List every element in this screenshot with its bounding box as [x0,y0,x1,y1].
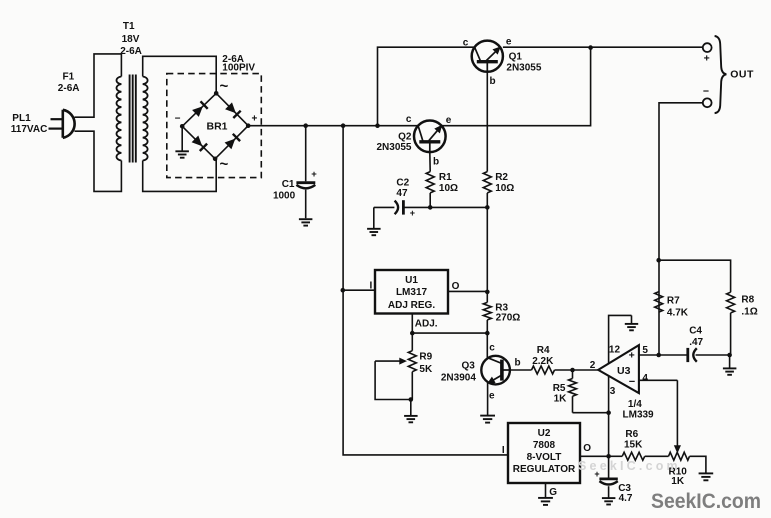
svg-text:F1: F1 [63,71,75,82]
label BR1 [206,120,227,132]
bridge module dashed outline [167,74,261,178]
diode BR1 top-right [225,102,241,118]
resistor R9 5K pot [408,351,433,400]
svg-text:270Ω: 270Ω [496,312,521,323]
wire Q3 base to R4 [510,369,532,371]
transformer T1 core [130,75,136,163]
svg-text:Q3: Q3 [462,360,476,371]
svg-text:ADJ.: ADJ. [415,319,438,330]
svg-text:−: − [629,376,635,388]
svg-text:100PIV: 100PIV [222,63,255,74]
svg-text:U1: U1 [405,275,418,286]
node U1 bus tap [341,123,346,128]
svg-text:+: + [410,208,415,218]
connector PL1 117VAC plug [11,110,75,138]
svg-text:10Ω: 10Ω [439,183,458,194]
svg-text:1K: 1K [671,476,685,487]
svg-text:2N3055: 2N3055 [506,62,541,73]
ground C3 [602,498,616,504]
svg-text:c: c [406,114,412,125]
wire ADJ pin [412,314,438,334]
wire Q1 emitter to OUT+ [503,46,703,48]
svg-text:8-VOLT: 8-VOLT [527,452,562,463]
label U1 input pin I [370,281,373,292]
ground Q3 [480,416,495,423]
wire Q1 collector riser [378,47,475,126]
svg-text:LM339: LM339 [623,410,655,421]
wire R5 bottom to pin3 node [573,412,609,414]
svg-text:10Ω: 10Ω [495,183,514,194]
node U1 input [341,288,346,293]
capacitor C2 47 [374,177,430,218]
svg-text:.1Ω: .1Ω [741,307,757,318]
wire U1 output [448,290,487,292]
resistor R3 270ohm [483,292,520,333]
capacitor C3 4.7 [594,456,633,504]
terminal OUT+ [703,43,712,64]
svg-text:18V: 18V [122,34,140,45]
svg-text:R4: R4 [537,345,550,356]
wire U3 pin4 to R10 wiper [639,379,678,381]
node R1 bottom [428,205,433,210]
regulator U1 LM317 box [375,270,448,314]
svg-text:4.7K: 4.7K [667,307,689,318]
resistor R6 15K [622,429,645,460]
svg-text:2.2K: 2.2K [532,356,554,367]
svg-text:LM317: LM317 [396,287,428,298]
wire U1 input [343,289,375,291]
svg-text:T1: T1 [123,21,135,32]
wire R4 to node2 [555,369,599,371]
label U2 input I [502,445,505,456]
svg-text:C4: C4 [689,325,702,336]
wiper R9 [375,358,411,399]
node bridge bottom [213,156,229,173]
ground U3 pin12 [625,315,638,330]
diode BR1 bottom-left [192,136,208,152]
wire U3 pin12 VCC to ground [609,315,632,363]
transformer T1 primary winding [116,77,121,161]
node pin3 junction [606,410,611,415]
wire U2 output [580,455,609,457]
svg-text:2: 2 [590,360,596,371]
svg-text:BR1: BR1 [206,120,227,132]
svg-text:b: b [515,358,521,369]
ground bridge left node [175,126,189,157]
resistor R4 2.2K [532,345,555,374]
svg-text:1K: 1K [554,394,568,405]
svg-text:R7: R7 [667,296,680,307]
node R7 top junction [656,258,661,263]
ground R9 [404,400,418,423]
node U1 output R3 top [485,290,490,295]
node bridge right [246,114,258,128]
bridge rectifier BR1 diamond [182,93,248,159]
svg-text:SeekIC.com: SeekIC.com [578,459,681,473]
svg-text:2N3055: 2N3055 [376,142,411,153]
resistor R7 4.7K [655,292,689,319]
svg-text:4: 4 [642,373,648,384]
svg-text:e: e [489,390,495,401]
capacitor C4 .47 [688,325,730,362]
svg-text:R9: R9 [419,352,432,363]
wire main positive bus [248,125,418,127]
node comparator input 2 [570,368,575,373]
svg-text:C2: C2 [396,177,409,188]
wire R6 left [609,455,623,457]
node Q1 collector tap [375,123,380,128]
svg-text:U2: U2 [538,428,551,439]
transistor Q3 2N3904 [441,342,521,401]
resistor R8 .1ohm [727,292,758,355]
diode BR1 bottom-right [225,134,241,150]
wire R1 to R2 bottom link [430,206,487,208]
wire top link to R8 [659,260,731,292]
svg-text:c: c [489,342,495,353]
wire pin3 node to output bus [608,413,610,457]
svg-text:117VAC: 117VAC [11,124,48,135]
regulator U2 7808 box [508,423,580,483]
svg-text:+: + [629,350,635,362]
wire U3 pin5 [639,354,687,356]
wire Q1 base to R2 [486,72,488,172]
wire Q3 emitter to ground [487,383,489,415]
wiper arrow R10 [675,380,681,452]
svg-text:−: − [175,114,181,125]
transistor Q2 2N3055 [376,114,451,167]
svg-text:−: − [703,86,709,98]
svg-text:b: b [433,157,439,168]
svg-text:G: G [549,487,557,498]
svg-text:R8: R8 [741,295,754,306]
wire R6 to R10 [645,455,669,457]
bridge rating label [222,54,255,73]
svg-text:OUT: OUT [730,69,754,81]
wire ADJ to R9 [411,333,413,351]
wire Q2 base to R1 [429,152,431,172]
node pin5 R7 tap [656,353,661,358]
svg-text:REGULATOR: REGULATOR [513,464,576,475]
watermark SeekIC.com [651,488,761,513]
svg-text:R6: R6 [625,429,638,440]
wire R2 bottom to R3 node [486,193,488,292]
svg-text:Q1: Q1 [509,52,523,63]
svg-text:5K: 5K [419,364,433,375]
transformer T1 labels [120,21,142,57]
node OUT+ junction [588,45,593,50]
ground C2 [367,229,381,235]
transistor Q1 2N3055 [463,36,542,87]
svg-text:R2: R2 [495,172,508,183]
svg-text:O: O [452,281,460,292]
wire plug bottom to primary bottom [75,131,122,191]
ground C1 [299,219,313,225]
svg-text:R1: R1 [439,172,452,183]
resistor R10 1K pot [669,452,690,487]
brace OUT [715,36,754,113]
svg-text:+: + [311,169,317,180]
wire R10 right to ground [690,456,706,473]
fuse F1 label [58,71,80,94]
wire R1 bottom [429,193,431,208]
ground R8 C4 [723,355,737,375]
svg-text:2-6A: 2-6A [58,83,80,94]
svg-text:2N3904: 2N3904 [441,373,476,384]
svg-text:.47: .47 [689,337,703,348]
node U2 output junction [606,454,611,459]
transformer T1 secondary winding [143,77,148,161]
label U1 output pin O [452,281,460,292]
svg-text:ADJ REG.: ADJ REG. [388,300,435,311]
wire OUT- riser [659,103,703,355]
ground R10 [699,473,714,480]
svg-text:7808: 7808 [533,440,556,451]
resistor R2 10ohm [483,172,514,194]
svg-text:b: b [490,76,496,87]
node R2 bottom [485,205,490,210]
wire U2 ground pin [546,483,558,498]
svg-text:+: + [252,114,258,125]
svg-text:I: I [502,445,505,456]
svg-text:2-6A: 2-6A [120,46,142,57]
node bridge top [214,78,229,96]
svg-text:Q2: Q2 [398,132,412,143]
node ADJ junction [410,331,415,336]
node R3 bottom [485,331,490,336]
diode BR1 top-left [192,101,208,117]
wire Q2 emitter to OUT+ riser [442,48,590,126]
svg-text:C1: C1 [282,179,295,190]
svg-text:3: 3 [610,386,616,397]
node C4 R8 junction [727,353,732,358]
label U2 output O [583,443,591,454]
svg-text:1000: 1000 [273,191,296,202]
svg-text:PL1: PL1 [12,113,31,124]
ground U2 [538,498,553,505]
wire ADJ to R3 bottom [412,332,487,334]
node C1 tap [303,123,308,128]
svg-text:~: ~ [220,78,229,95]
node bridge left [175,114,185,129]
terminal OUT- [703,86,712,108]
wire secondary top to bridge [143,56,217,93]
svg-text:e: e [446,115,452,126]
wire bus to U1 and U2 input [343,126,508,455]
wire R3 bottom to Q3 collector [486,333,488,358]
svg-text:4.7: 4.7 [619,493,633,504]
resistor R1 10ohm [426,172,458,194]
svg-text:47: 47 [396,188,408,199]
op-amp U3 LM339 triangle [590,344,654,420]
svg-text:15K: 15K [624,440,643,451]
svg-text:R5: R5 [553,383,566,394]
svg-text:+: + [704,52,710,64]
svg-text:SeekIC.com: SeekIC.com [651,488,761,513]
wire plug top to fuse rail [75,54,122,117]
svg-text:1/4: 1/4 [628,399,642,410]
svg-text:O: O [583,443,591,454]
capacitor C1 1000 [273,126,317,219]
svg-text:12: 12 [609,344,621,355]
watermark faint [578,459,681,473]
svg-text:e: e [506,36,512,47]
resistor R5 1K [553,370,577,413]
svg-text:c: c [463,38,469,49]
wire secondary bottom to bridge [143,159,217,192]
svg-text:~: ~ [220,156,229,173]
wire U3 pin3 down [608,376,610,413]
wire C2 ground stub [373,207,375,228]
node R9 bottom [409,397,414,402]
